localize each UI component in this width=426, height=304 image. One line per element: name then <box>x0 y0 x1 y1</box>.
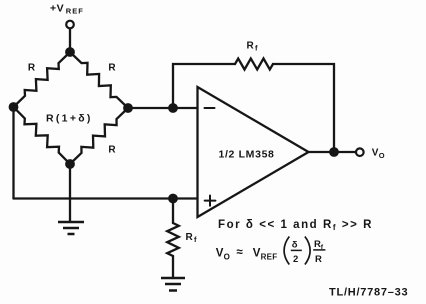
terminal +VREF <box>66 21 74 29</box>
svg-text:R: R <box>108 145 116 156</box>
label 1/2 LM358 <box>219 149 275 161</box>
svg-text:R: R <box>108 63 116 74</box>
wire output <box>309 151 356 153</box>
resistor R (bridge upper-left arm) <box>14 52 71 107</box>
label R upper-right <box>108 63 116 74</box>
wire bridge bottom to ground <box>69 164 71 222</box>
node output <box>329 147 339 157</box>
svg-text:f: f <box>255 44 258 53</box>
svg-text:1/2 LM358: 1/2 LM358 <box>219 149 275 161</box>
svg-text:REF: REF <box>261 253 278 262</box>
node minus input <box>168 103 178 113</box>
wire left node down <box>12 107 14 199</box>
node plus input junction <box>168 194 178 204</box>
label VO <box>372 148 385 161</box>
svg-text:O: O <box>379 151 385 160</box>
svg-text:R: R <box>315 254 322 265</box>
ground (Rf) <box>161 278 185 291</box>
label Rf bottom <box>186 232 198 244</box>
resistor R (bridge upper-right arm) <box>70 52 128 108</box>
svg-text:≈: ≈ <box>237 247 244 259</box>
svg-text:V: V <box>253 248 261 260</box>
wire VREF to bridge top <box>69 29 71 52</box>
op-amp U1 triangle <box>198 87 309 217</box>
svg-text:V: V <box>372 148 379 159</box>
wire bridge right node to minus input <box>128 107 198 109</box>
node bridge top <box>65 47 75 57</box>
label R lower-right <box>108 145 116 156</box>
wire feedback riser <box>173 64 235 108</box>
ground (bridge) <box>58 222 84 234</box>
node bridge right <box>123 103 133 113</box>
pin minus <box>205 107 215 109</box>
svg-text:REF: REF <box>66 7 84 16</box>
svg-text:R: R <box>186 232 194 243</box>
svg-text:O: O <box>224 253 230 262</box>
svg-text:2: 2 <box>293 254 298 265</box>
svg-text:For δ << 1 and Rf >> R: For δ << 1 and Rf >> R <box>218 219 373 232</box>
pin plus <box>205 196 216 206</box>
resistor R (bridge lower-right arm) <box>70 108 128 164</box>
svg-text:V: V <box>216 248 224 260</box>
node bridge left <box>9 102 19 112</box>
resistor R(1+delta) (bridge lower-left arm) <box>14 107 71 164</box>
note condition line <box>218 219 373 232</box>
svg-text:R(1+δ): R(1+δ) <box>46 113 93 125</box>
svg-text:+V: +V <box>50 3 64 15</box>
wire Rf2 to ground <box>172 256 174 278</box>
wire bottom rail to op-amp plus input <box>14 197 198 199</box>
terminal VO <box>356 148 364 156</box>
resistor Rf (to ground) <box>167 223 179 256</box>
note formula VO <box>216 237 326 266</box>
svg-text:δ: δ <box>292 240 298 251</box>
note figure number <box>329 287 408 299</box>
label R upper-left <box>28 63 36 74</box>
label +VREF <box>50 3 84 16</box>
svg-text:TL/H/7787–33: TL/H/7787–33 <box>329 287 408 299</box>
svg-text:f: f <box>194 235 197 244</box>
wire feedback to output <box>273 64 334 152</box>
wire junction to resistor Rf2 <box>172 199 174 224</box>
label R(1+delta) <box>46 113 93 125</box>
resistor Rf (feedback) <box>235 59 273 70</box>
node bridge bottom <box>65 159 75 169</box>
svg-text:R: R <box>247 41 255 52</box>
svg-text:R: R <box>28 63 36 74</box>
label Rf feedback <box>247 41 259 53</box>
